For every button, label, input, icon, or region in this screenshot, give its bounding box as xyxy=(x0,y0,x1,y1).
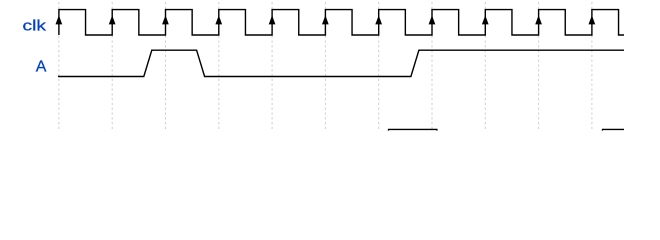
clk edge arrow 8 xyxy=(482,15,489,24)
gridline 6 xyxy=(378,2,380,130)
clk edge arrow 5 xyxy=(322,15,329,24)
signal row4 (clipped) pulse 2 xyxy=(602,129,624,130)
clk edge arrow 10 xyxy=(589,15,596,24)
gridline 7 xyxy=(431,2,433,130)
gridline 9 xyxy=(538,2,540,130)
clk edge arrow 3 xyxy=(215,15,222,24)
clk edge arrow 0 xyxy=(56,15,63,24)
clk edge arrow 7 xyxy=(429,15,436,24)
gridline 8 xyxy=(484,2,486,130)
svg-text:clk: clk xyxy=(23,18,47,35)
signal row4 (clipped) pulse 1 xyxy=(388,129,437,130)
clk edge arrow 9 xyxy=(535,15,542,24)
signal A waveform xyxy=(58,50,624,76)
gridline 4 xyxy=(271,2,273,130)
clk edge arrow 4 xyxy=(269,15,276,24)
clk edge arrow 2 xyxy=(162,15,169,24)
gridline 5 xyxy=(324,2,326,130)
gridline 1 xyxy=(111,2,113,130)
gridline 3 xyxy=(218,2,220,130)
gridline 2 xyxy=(165,2,167,130)
svg-text:A: A xyxy=(36,59,47,76)
clk edge arrow 6 xyxy=(375,15,382,24)
clk edge arrow 1 xyxy=(109,15,116,24)
gridline 0 xyxy=(58,2,60,130)
gridline 10 xyxy=(591,2,593,130)
signal clk waveform xyxy=(59,10,624,35)
